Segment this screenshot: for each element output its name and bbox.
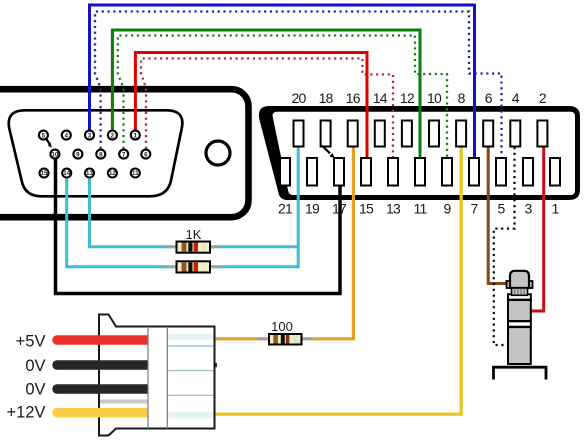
svg-text:3: 3 [525, 201, 533, 217]
svg-text:14: 14 [373, 90, 388, 106]
jack tip ear right [528, 281, 533, 288]
wire green-return dotted VGA pin7 to SCART pin9 [118, 36, 447, 159]
wire red audio SCART pin2 to jack ring [530, 147, 544, 311]
jack insulator white band mid [509, 322, 530, 325]
wire blue solid VGA pin3 to SCART pin7 [90, 5, 475, 159]
resistor R2 1K [166, 261, 221, 272]
VGA pins row1 [39, 131, 150, 178]
VGA connector J1 housing [0, 89, 249, 217]
resistor R3 100 [258, 334, 313, 345]
svg-text:100: 100 [271, 319, 293, 334]
molex power connector body [99, 315, 215, 436]
wire green solid VGA pin2 to SCART pin11 [112, 30, 420, 159]
SCART pin rects bottom row [280, 158, 560, 186]
wire blue-return dotted VGA pin8 to SCART pin5 [95, 12, 502, 159]
molex wire yellow +12V [57, 408, 148, 418]
svg-text:11: 11 [132, 170, 139, 177]
svg-text:13: 13 [386, 201, 401, 217]
molex wire red +5V [57, 335, 148, 345]
svg-text:1K: 1K [186, 227, 202, 242]
wire black dotted audio ground SCART pin4 to jack sleeve [494, 147, 515, 345]
svg-text:19: 19 [305, 201, 320, 217]
wire red-return dotted VGA pin6 to SCART pin13 [141, 59, 393, 159]
wire cyan V-sync VGA pin14 to node S [67, 178, 299, 267]
SCART connector J2 body [259, 106, 580, 200]
svg-text:15: 15 [41, 170, 48, 177]
molex slot tint top [168, 334, 213, 340]
svg-text:0V: 0V [25, 357, 45, 375]
svg-text:7: 7 [471, 201, 479, 217]
svg-text:2: 2 [539, 90, 547, 106]
svg-text:13: 13 [86, 170, 93, 177]
SCART pin rects top row [294, 121, 548, 147]
wire cyan node S to SCART pin20 [297, 146, 300, 268]
svg-text:+5V: +5V [16, 332, 46, 350]
svg-text:12: 12 [400, 90, 415, 106]
svg-text:2: 2 [111, 132, 115, 139]
svg-text:3: 3 [88, 132, 92, 139]
svg-text:8: 8 [99, 151, 103, 158]
molex latch gray [100, 400, 148, 404]
svg-text:4: 4 [65, 132, 69, 139]
svg-text:5: 5 [498, 201, 506, 217]
svg-text:15: 15 [359, 201, 374, 217]
svg-text:14: 14 [63, 170, 70, 177]
jack body ring+sleeve [508, 294, 531, 364]
svg-text:12: 12 [109, 170, 116, 177]
svg-text:8: 8 [458, 90, 466, 106]
jack ring bottom line [507, 320, 532, 322]
svg-text:6: 6 [485, 90, 493, 106]
svg-text:9: 9 [444, 201, 452, 217]
jack sleeve top line [507, 326, 532, 328]
molex wire black 0V b [57, 384, 148, 394]
svg-text:16: 16 [346, 90, 361, 106]
wire red solid VGA pin1 to SCART pin15 [135, 53, 367, 159]
jack tip ear left [507, 281, 512, 288]
svg-text:18: 18 [319, 90, 334, 106]
svg-text:1: 1 [134, 132, 138, 139]
wire yellow +12V to SCART pin8 [214, 147, 461, 414]
jack insulator white band top [509, 295, 530, 298]
wire brown SCART pin6 to jack tip [488, 147, 509, 284]
molex latch tick [214, 363, 217, 367]
wire ground black VGA pin10 to SCART pin17 [56, 159, 341, 294]
wire orange +5V via R3 to SCART pin16 [214, 147, 353, 339]
VGA pin numbers [41, 132, 149, 177]
link SCART pin18 to pin17 arrow [322, 146, 330, 154]
molex divider lines [147, 327, 149, 429]
VGA D-sub insert outline [9, 110, 183, 196]
svg-text:4: 4 [512, 90, 520, 106]
wire cyan H-sync VGA pin13 to node S [90, 178, 299, 247]
jack plug P1 bracket [494, 367, 547, 379]
link VGA pin5 to pin10 arrow [47, 139, 50, 144]
jack tip dome [510, 271, 529, 288]
svg-text:10: 10 [51, 151, 58, 158]
molex slot tint bottom [168, 412, 213, 419]
molex slot lines [168, 346, 213, 395]
svg-text:20: 20 [292, 90, 307, 106]
svg-text:9: 9 [76, 151, 80, 158]
svg-text:7: 7 [122, 151, 126, 158]
svg-text:0V: 0V [25, 381, 45, 399]
svg-text:6: 6 [144, 151, 148, 158]
jack ring top line [507, 299, 532, 301]
VGA screw hole [206, 141, 230, 165]
svg-text:10: 10 [427, 90, 442, 106]
resistor R1 1K [166, 242, 221, 253]
molex wire black 0V a [57, 360, 148, 370]
svg-text:+12V: +12V [7, 404, 46, 422]
svg-text:11: 11 [414, 201, 428, 217]
svg-text:21: 21 [278, 201, 293, 217]
svg-text:5: 5 [42, 132, 46, 139]
svg-text:1: 1 [552, 201, 560, 217]
jack knurl [512, 288, 528, 295]
